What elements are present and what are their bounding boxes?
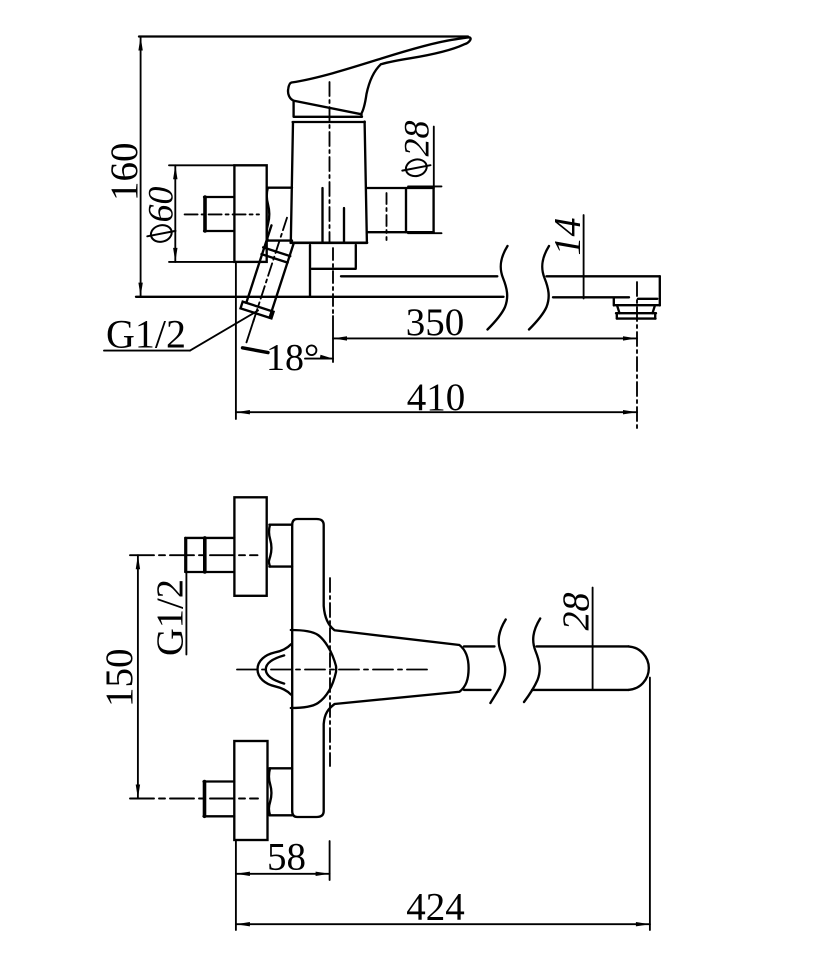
extension lines 58 — [236, 841, 330, 930]
svg-text:350: 350 — [406, 301, 465, 344]
body slab + spout cone outline (front view) — [292, 519, 468, 817]
spout pipe (front view) — [464, 646, 629, 690]
top hex nut (front view) — [269, 525, 292, 567]
extension line top (160 dim, top of handle) — [139, 35, 468, 37]
body center line — [329, 82, 331, 243]
dimension 160 arrow top — [138, 37, 142, 51]
spout base vertical extension (18deg ref / 350 ext) — [332, 316, 334, 362]
top inlet axis centerline — [130, 554, 258, 556]
spout base (side view) — [310, 245, 356, 297]
knob inner arc — [266, 655, 284, 683]
G1/2 leader (front view) — [185, 538, 187, 655]
tilted G1/2 connector (18 deg) — [231, 213, 302, 348]
svg-text:150: 150 — [98, 649, 141, 708]
dimension 14 — [583, 215, 585, 299]
svg-text:G1/2: G1/2 — [150, 579, 192, 656]
break wavy lines (front view) — [490, 620, 505, 704]
wall nut square (side view) — [204, 197, 234, 231]
dimension 350 — [333, 337, 637, 339]
dimension 150 — [137, 555, 139, 798]
horizontal axis center line (front view) — [237, 669, 432, 671]
shower outlet phi28 (side view, right of body) — [367, 188, 434, 240]
handle dome (front view, end-on) — [291, 630, 336, 708]
dimension 410 — [236, 411, 637, 413]
G1/2 leader — [104, 311, 258, 351]
bottom escutcheon (front view) — [234, 741, 267, 840]
hex nut between escutcheon and body (side view) — [267, 188, 292, 241]
escutcheon (side view) — [234, 165, 266, 262]
break wavy lines (side view) — [488, 246, 508, 330]
dimension phi60 line — [169, 165, 234, 262]
spout tip block + aerator (side view) — [553, 276, 660, 318]
spout pipe (side view) — [341, 275, 660, 277]
svg-text:60: 60 — [141, 187, 181, 223]
dimension 424 — [236, 923, 650, 925]
text phi60 — [147, 223, 175, 244]
spout end cap (front view) — [629, 646, 649, 690]
bottom wall nut (front view) — [204, 782, 235, 817]
svg-text:28: 28 — [556, 593, 598, 631]
dimension 58 — [236, 873, 330, 875]
top escutcheon (front view) — [234, 497, 266, 596]
dimension 160 arrow bottom — [138, 283, 142, 297]
dimension phi28 — [408, 127, 442, 234]
body cylinder (side view) — [291, 122, 367, 243]
dimension 160 line — [140, 37, 142, 297]
svg-text:28: 28 — [397, 121, 437, 157]
text phi28 — [402, 157, 430, 178]
extension/spout bottom line — [136, 296, 504, 298]
top wall nut (front view) — [185, 538, 234, 572]
body cap + handle bottom (side view) — [293, 101, 365, 122]
svg-text:424: 424 — [406, 886, 465, 929]
inlet axis centerline (side view) — [185, 213, 259, 215]
dimension 28 (front view) — [592, 588, 594, 690]
svg-text:14: 14 — [547, 218, 589, 256]
svg-text:58: 58 — [267, 836, 306, 879]
handle knob outer profile (front view) — [258, 644, 291, 694]
phi60 arrows — [173, 165, 177, 179]
vertical center line through body (front view) — [329, 578, 331, 766]
bottom hex nut (front view) — [269, 768, 292, 815]
extension line wall plane — [235, 263, 237, 419]
bottom inlet axis centerline — [130, 798, 258, 800]
extension line spout end — [649, 678, 651, 931]
svg-text:410: 410 — [407, 376, 466, 419]
spout tip center line — [636, 282, 638, 430]
handle (side view lever) — [288, 37, 471, 114]
